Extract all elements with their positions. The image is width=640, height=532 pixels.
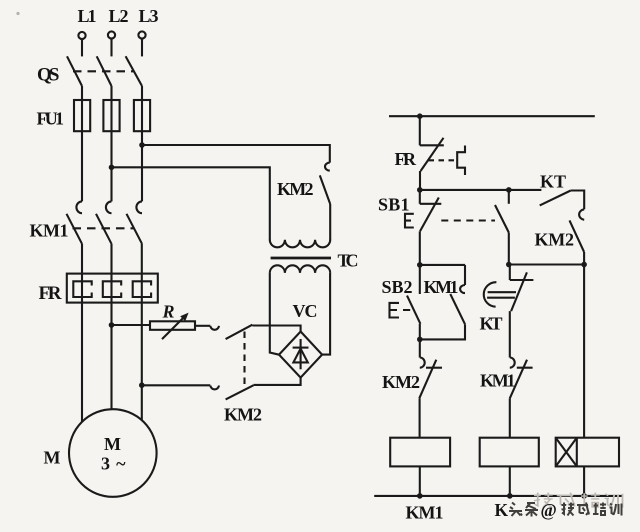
svg-text:KM1: KM1 xyxy=(406,503,444,523)
svg-text:QS: QS xyxy=(37,65,60,86)
TC secondary left lead xyxy=(270,273,279,355)
wire KM2 lower to rectifier bottom xyxy=(253,378,300,385)
contactor KM1 aux corner wire xyxy=(464,265,466,285)
KM2 brake link dashed xyxy=(243,332,245,391)
KM1 main pole 1 blade xyxy=(67,214,83,244)
contactor KM1 main pole 3 hook xyxy=(136,201,142,213)
junction node1 left xyxy=(417,187,423,193)
FR heater element 1 xyxy=(73,281,91,297)
SB1 blade xyxy=(420,198,439,232)
svg-text:KM2: KM2 xyxy=(382,372,420,392)
wire KM2 NC to coil KM1 xyxy=(419,398,421,437)
junction bottom c xyxy=(581,493,587,499)
KT delay symbol lines xyxy=(487,292,516,298)
junction node2 b xyxy=(506,262,512,268)
transformer TC primary winding xyxy=(270,240,330,248)
junction on L2 (TC primary tap) xyxy=(109,165,115,171)
KM1 main pole 3 blade xyxy=(127,214,143,244)
terminal L3 xyxy=(138,31,145,56)
svg-text:KM1: KM1 xyxy=(30,221,69,241)
KM1 aux fixed hook xyxy=(460,285,465,293)
resistor R xyxy=(150,321,195,330)
svg-text:M: M xyxy=(44,448,61,468)
KM2 brake lower fixed hook xyxy=(210,386,219,390)
transformer TC secondary winding xyxy=(270,265,330,273)
terminal L1 xyxy=(78,32,85,57)
pushbutton SB2 wire xyxy=(419,265,421,294)
diode of VC xyxy=(293,339,309,369)
transformer TC core xyxy=(271,257,331,260)
wire R to KM2 brake upper contact xyxy=(195,325,210,327)
svg-text:M: M xyxy=(104,434,121,454)
KM1 main pole 2 blade xyxy=(96,214,112,244)
contactor KM2 main blade xyxy=(320,175,330,204)
svg-text:SB1: SB1 xyxy=(378,195,410,215)
junction node3 xyxy=(417,337,423,343)
svg-text:KM2: KM2 xyxy=(277,179,314,199)
coil KM1 xyxy=(390,438,450,467)
wire KM2 to TC primary right xyxy=(329,204,331,240)
contactor KM2 NC blade right branch xyxy=(570,220,585,252)
motor M circle xyxy=(69,409,157,497)
svg-text:KM1: KM1 xyxy=(424,277,459,297)
svg-text:FR: FR xyxy=(395,149,418,169)
FR heater element 3 xyxy=(133,281,151,297)
wire KT to corner xyxy=(571,191,585,210)
junction node1 mid xyxy=(506,187,512,193)
svg-text:L3: L3 xyxy=(139,6,159,26)
rectifier VC bridge diamond xyxy=(279,332,322,378)
wire L1 KM1 to motor xyxy=(81,244,83,422)
pushbutton SB1 NO wire xyxy=(508,190,510,204)
timer contact KT NO blade xyxy=(540,191,571,206)
KM2 brake upper blade xyxy=(226,325,253,339)
svg-text:L1: L1 xyxy=(78,6,97,26)
wire SB2 to node3 xyxy=(419,324,421,340)
KT delay symbol arc xyxy=(484,282,497,307)
junction node2 c xyxy=(581,262,587,268)
wire KM2 NC to node2 xyxy=(583,252,585,265)
KM2 NC fixed tick xyxy=(426,367,442,369)
KT delayed NC fixed tick xyxy=(510,279,534,281)
KM1 NC fixed hook xyxy=(510,358,515,368)
TC secondary right lead xyxy=(322,273,330,355)
SB2 button actuator xyxy=(390,303,411,318)
wire L1 phase (QS to KM1) xyxy=(81,86,83,201)
wire L2 phase (QS to KM1) xyxy=(110,86,112,201)
wire node2 to coil KM2 xyxy=(583,265,585,438)
fuse FU1 pole 1 xyxy=(74,100,90,131)
contactor KM1 main pole 2 hook xyxy=(106,201,112,213)
svg-text:R: R xyxy=(162,302,175,322)
svg-text:KM1: KM1 xyxy=(480,371,516,391)
wire L3 to KM2 brake lower contact xyxy=(142,384,211,386)
KM1 NC fixed tick xyxy=(517,367,533,369)
KM1 NC blade xyxy=(510,360,527,399)
wire L2 to resistor R xyxy=(112,324,151,326)
svg-text:VC: VC xyxy=(293,301,318,321)
KM2 NC blade xyxy=(419,360,436,399)
contactor KM1 main pole 1 hook xyxy=(76,201,82,213)
svg-text:FU1: FU1 xyxy=(37,109,65,129)
junction bottom b xyxy=(507,493,513,499)
terminal L2 xyxy=(108,31,115,56)
node wire row 2 right xyxy=(509,263,584,265)
coil KT xyxy=(480,438,539,467)
svg-text:KM2: KM2 xyxy=(535,230,575,250)
KT fixed hook xyxy=(579,209,584,220)
svg-text:SB2: SB2 xyxy=(382,277,413,297)
FR heater element 2 xyxy=(103,281,121,297)
FR trip linkage dashed xyxy=(429,159,458,161)
SB1 fixed tick xyxy=(420,203,442,205)
svg-text:FR: FR xyxy=(39,283,62,304)
pushbutton SB1 NC wire xyxy=(419,190,421,204)
svg-text:K: K xyxy=(495,500,509,520)
thermal relay FR box xyxy=(67,274,158,303)
FR NC contact blade xyxy=(421,138,444,171)
wire KM1 NC to coil KT xyxy=(509,398,511,437)
FR NC contact fixed tick xyxy=(420,144,444,146)
wire L3 to KM2 brake contact xyxy=(142,145,330,163)
FR trip device xyxy=(457,146,465,176)
SB1 button actuator xyxy=(405,214,414,228)
junction on L2 (R branch) xyxy=(109,322,115,328)
wire KT to KM1 NC xyxy=(509,311,511,357)
svg-text:L2: L2 xyxy=(109,6,129,26)
junction bottom a xyxy=(417,493,423,499)
wire L3 phase (QS to KM1) xyxy=(141,86,143,201)
wire coil KM2 to bottom bus xyxy=(583,466,585,496)
wire KM2 upper to rectifier top xyxy=(252,326,300,333)
junction on L3 (brake supply tap) xyxy=(139,142,145,148)
wire KM1 aux to node3 xyxy=(420,324,465,339)
KM1 mechanical link dashed xyxy=(73,227,135,229)
contactor KM2 main fixed hook xyxy=(325,163,330,171)
wire FR to node xyxy=(419,171,421,190)
node wire row 2 left xyxy=(420,264,465,266)
wire L2 to TC primary left xyxy=(112,167,270,240)
R adjust arrow xyxy=(162,313,189,340)
node wire row 1 xyxy=(420,189,542,191)
wire bus to FR contact xyxy=(419,116,421,145)
wire node2 to KT delayed contact xyxy=(509,265,511,281)
QS mechanical link dashed xyxy=(73,70,134,72)
SB2 blade xyxy=(407,296,420,324)
disconnect switch QS blade 3 xyxy=(126,56,142,86)
speck top left xyxy=(16,12,19,15)
SB1 linkage dashed xyxy=(441,219,495,221)
watermark dark text xyxy=(495,500,622,520)
wire L3 KM1 to motor xyxy=(141,244,143,420)
KM2 NC fixed hook xyxy=(420,358,425,368)
wire L2 KM1 to motor xyxy=(110,244,112,410)
fuse FU1 pole 2 xyxy=(103,100,119,131)
junction node2 a xyxy=(417,262,423,268)
svg-text:KM2: KM2 xyxy=(224,405,262,425)
wire coil KM1 to bottom bus xyxy=(419,466,421,496)
wire SB1 NO to node2 xyxy=(508,233,510,265)
KT delayed NC blade xyxy=(511,272,527,311)
svg-text:KT: KT xyxy=(480,314,503,334)
control circuit top bus xyxy=(389,115,595,117)
svg-text:@: @ xyxy=(541,500,557,520)
KM2 brake upper fixed hook xyxy=(210,326,219,330)
wire coil KT to bottom bus xyxy=(509,466,511,496)
wire node3 to KM2 NC xyxy=(419,339,421,357)
disconnect switch QS blade 2 xyxy=(97,56,112,86)
KM2 brake lower blade xyxy=(226,385,254,399)
disconnect switch QS blade 1 xyxy=(67,56,82,86)
svg-text:KT: KT xyxy=(540,172,566,192)
KM1 aux blade xyxy=(450,294,465,324)
coil KM2 with delay box xyxy=(556,438,619,467)
control circuit bottom bus xyxy=(374,495,623,497)
junction top bus xyxy=(417,113,423,119)
watermark light ghost xyxy=(534,493,623,508)
svg-text:TC: TC xyxy=(338,251,359,271)
junction on L3 (brake return) xyxy=(139,382,145,388)
SB1 NO blade xyxy=(495,205,509,233)
fuse FU1 pole 3 xyxy=(134,100,150,131)
svg-text:3~: 3~ xyxy=(101,454,126,474)
wire SB1 to node2 xyxy=(419,231,421,265)
